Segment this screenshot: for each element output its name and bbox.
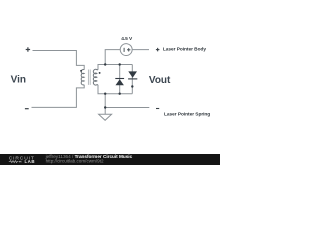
transformer core <box>88 70 90 85</box>
terminal - (Laser Pointer Spring) <box>156 108 159 110</box>
wire: middle diode branch <box>119 65 121 94</box>
svg-text:Vin: Vin <box>11 74 26 85</box>
terminal + (Laser Pointer Body) <box>156 48 160 52</box>
transformer primary phase dot <box>80 70 82 72</box>
node: middle diode on bottom rail <box>119 93 121 95</box>
wire: secondary top rail <box>98 65 132 70</box>
wire: Vin top from + to transformer primary top lead <box>33 51 85 70</box>
svg-text:LAB: LAB <box>25 159 36 164</box>
wire: ground node to laser pointer spring terminal <box>105 107 149 109</box>
svg-text:Laser Pointer Body: Laser Pointer Body <box>163 46 206 52</box>
voltage source V1 <box>120 44 132 56</box>
wire: transformer primary bottom lead to Vin minus <box>32 85 85 108</box>
wire: ground branch down <box>104 94 106 115</box>
transformer secondary phase dot <box>99 72 101 74</box>
footer logo resistor zigzag <box>9 161 19 163</box>
wire: secondary bottom rail <box>98 85 132 94</box>
diode D2 (middle, pointing up) <box>115 79 124 86</box>
node: ground branch on bottom rail <box>104 93 106 95</box>
wire: voltage source to laser pointer body terminal <box>132 49 149 51</box>
terminal - (Vin minus) <box>25 108 29 110</box>
svg-text:4.5 V: 4.5 V <box>121 36 133 42</box>
svg-text:Vout: Vout <box>149 75 171 86</box>
ground symbol <box>99 114 112 120</box>
terminal + (Vin plus) <box>26 47 30 51</box>
diode D1 (right, pointing down) <box>128 71 137 79</box>
wire: source branch up and to voltage source <box>105 50 120 65</box>
node: source branch on top rail <box>104 63 106 65</box>
footer bar <box>0 154 220 165</box>
transformer T1 secondary winding <box>93 69 98 85</box>
node: ground wire junction <box>104 106 106 108</box>
wire: right diode branch <box>131 65 133 94</box>
node: Vout tap on right branch <box>131 85 133 87</box>
node: middle diode on top rail <box>119 63 121 65</box>
svg-text:http://circuitlab.com/cwm/9t2: http://circuitlab.com/cwm/9t2 <box>46 158 104 163</box>
svg-text:Laser Pointer Spring: Laser Pointer Spring <box>164 111 210 117</box>
transformer T1 primary winding <box>81 69 84 84</box>
